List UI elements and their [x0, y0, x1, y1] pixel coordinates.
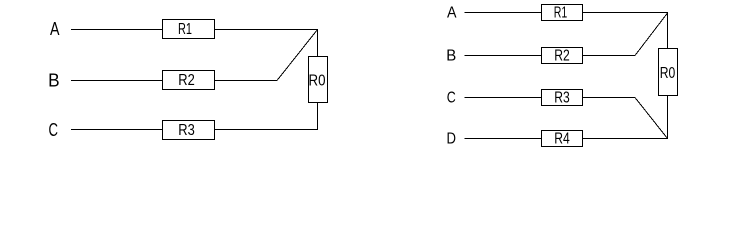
right circuit: resistor R3: [542, 90, 583, 107]
left circuit: wire node B to R2: [71, 80, 163, 82]
right circuit: resistor R1: [542, 5, 583, 22]
right circuit: wire R0 down to bottom junction: [667, 96, 669, 140]
right circuit: wire node D to R4: [465, 138, 542, 140]
left circuit: resistor R2: [163, 71, 215, 90]
right circuit: diagonal wire B branch up to top junction: [635, 13, 668, 56]
svg-text:A: A: [447, 5, 457, 22]
svg-text:C: C: [447, 90, 456, 107]
left circuit: resistor R1: [163, 20, 215, 39]
right circuit: wire R2 to diagonal: [583, 55, 636, 57]
svg-text:R0: R0: [309, 73, 326, 90]
svg-text:R1: R1: [178, 21, 192, 38]
svg-text:R2: R2: [178, 72, 195, 89]
left circuit: wire R0 down to bottom junction: [317, 103, 319, 131]
left circuit: wire node A to R1: [71, 29, 163, 31]
left circuit: wire node C to R3: [71, 129, 163, 131]
right circuit: resistor R4: [542, 131, 583, 148]
svg-text:B: B: [446, 48, 456, 65]
right circuit: wire node C to R3: [465, 97, 542, 99]
left circuit: resistor R0: [309, 57, 328, 103]
right circuit: wire top junction down to R0: [667, 13, 669, 49]
left circuit: wire R3 to bottom junction: [215, 129, 319, 131]
svg-text:R1: R1: [554, 5, 568, 22]
left circuit: wire R2 to diagonal: [215, 80, 278, 82]
svg-text:R4: R4: [554, 131, 570, 148]
svg-text:R3: R3: [178, 122, 195, 139]
right circuit: wire node B to R2: [465, 55, 542, 57]
right circuit: diagonal wire C branch down to bottom junction: [635, 98, 668, 139]
svg-text:R2: R2: [554, 48, 570, 65]
svg-text:C: C: [48, 120, 58, 140]
right circuit: resistor R2: [542, 48, 583, 65]
svg-text:R0: R0: [660, 65, 676, 82]
right circuit: wire R4 to bottom junction: [583, 138, 669, 140]
right circuit: resistor R0: [659, 49, 678, 96]
svg-text:B: B: [48, 71, 60, 91]
left circuit: diagonal wire B branch to top junction: [277, 30, 318, 81]
svg-text:A: A: [50, 19, 60, 39]
right circuit: wire R3 to diagonal: [583, 97, 636, 99]
right circuit: wire R1 to top junction: [583, 12, 669, 14]
right circuit: wire node A to R1: [465, 12, 542, 14]
left circuit: wire top junction down to R0: [317, 30, 319, 57]
left circuit: resistor R3: [163, 121, 215, 140]
svg-text:R3: R3: [554, 90, 570, 107]
svg-text:D: D: [447, 131, 457, 148]
left circuit: wire R1 to top junction: [215, 29, 319, 31]
